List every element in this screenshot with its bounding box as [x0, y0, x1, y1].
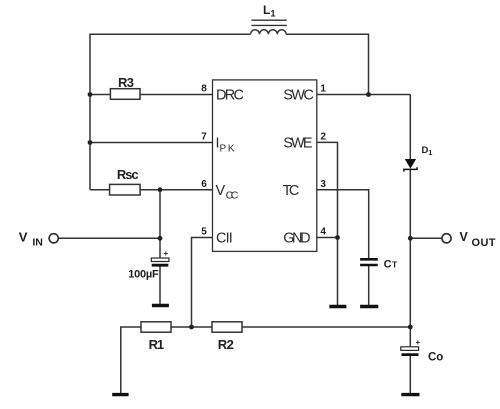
- wire: R1 to R2: [171, 326, 212, 328]
- label L1: [263, 3, 276, 19]
- wire: pin 4 GND to SWE column: [317, 237, 338, 239]
- svg-text:R3: R3: [118, 75, 134, 90]
- svg-text:Rsc: Rsc: [117, 167, 139, 182]
- diode D1: [405, 159, 416, 169]
- junction dot: V_OUT node: [408, 236, 413, 241]
- wire: diode column upper: [409, 95, 411, 160]
- wire: diode to V_OUT node and down to Co: [409, 170, 411, 347]
- wire: rail to Rsc: [90, 189, 110, 191]
- ground: below R1: [112, 393, 128, 396]
- svg-text:SWE: SWE: [283, 136, 313, 152]
- ground: below CT: [360, 305, 378, 308]
- junction dot: rail at R3: [88, 92, 93, 97]
- inductor L1 coil: [251, 30, 287, 34]
- junction dot: divider mid node: [189, 325, 194, 330]
- svg-text:100µF: 100µF: [128, 269, 159, 281]
- junction dot: GND / SWE node: [335, 235, 340, 240]
- svg-text:TC: TC: [283, 183, 300, 199]
- svg-text:R2: R2: [218, 337, 234, 352]
- svg-text:C: C: [384, 258, 392, 270]
- resistor R2 body: [212, 322, 242, 332]
- junction dot: V_IN node: [158, 236, 163, 241]
- capacitor C_T plates: [360, 258, 378, 261]
- svg-text:IN: IN: [32, 237, 42, 249]
- ground: below 100uF: [152, 304, 169, 307]
- svg-text:8: 8: [201, 84, 207, 95]
- wire: Co lower lead: [409, 356, 411, 394]
- terminal: V_OUT circle: [442, 234, 451, 243]
- svg-text:3: 3: [320, 179, 326, 190]
- svg-text:V: V: [460, 230, 469, 244]
- svg-text:1: 1: [271, 9, 276, 19]
- wire: V_OUT stub: [410, 237, 441, 239]
- svg-text:CII: CII: [216, 231, 233, 247]
- junction dot: rail at IPK: [88, 140, 93, 145]
- ground: below Co: [401, 393, 419, 396]
- svg-text:5: 5: [201, 227, 207, 238]
- svg-text:V: V: [19, 230, 28, 245]
- svg-text:T: T: [392, 259, 398, 269]
- resistor R1 body: [141, 322, 171, 332]
- wire: CT lower lead: [368, 266, 370, 306]
- inductor L1 core lines: [251, 19, 286, 21]
- resistor R3 body: [110, 89, 140, 100]
- wire: Rsc to pin 6 VCC: [140, 189, 212, 191]
- terminal: V_IN circle: [49, 234, 58, 243]
- wire: input cap lower lead: [159, 267, 161, 305]
- svg-text:L: L: [263, 3, 270, 17]
- pin name IPK: [216, 136, 235, 155]
- wire: R2 to output column: [242, 326, 410, 328]
- resistor R3 leads: [90, 94, 110, 96]
- svg-text:Co: Co: [428, 352, 443, 364]
- svg-text:PK: PK: [220, 143, 235, 154]
- label V_OUT: [460, 230, 496, 249]
- svg-text:CC: CC: [226, 189, 239, 201]
- capacitor Co (output electrolytic): [401, 338, 421, 355]
- diode D1 schottky cathode bar: [404, 167, 417, 171]
- svg-text:SWC: SWC: [283, 88, 314, 104]
- label V_IN: [19, 230, 43, 249]
- junction dot: SWC / L1 node: [366, 92, 371, 97]
- wire: bottom divider row: [121, 327, 141, 394]
- ground: below SWE/GND column: [329, 305, 346, 308]
- svg-text:7: 7: [201, 132, 207, 143]
- svg-text:1: 1: [320, 84, 326, 95]
- capacitor 100uF (input electrolytic): [151, 249, 169, 265]
- wire: VCC node column down to input cap: [159, 190, 161, 258]
- junction dot: output/Co node: [408, 325, 413, 330]
- svg-text:V: V: [216, 183, 226, 199]
- svg-text:OUT: OUT: [472, 237, 496, 249]
- svg-text:2: 2: [320, 132, 326, 143]
- svg-text:+: +: [416, 338, 421, 347]
- label D1: [422, 145, 433, 157]
- svg-text:1: 1: [428, 148, 432, 157]
- svg-text:6: 6: [201, 179, 207, 190]
- wire: top right segment from L1 to SWC drop: [286, 34, 368, 94]
- wire: pin 3 TC bend down to CT: [317, 190, 369, 258]
- resistor Rsc body: [110, 184, 141, 195]
- svg-text:4: 4: [320, 227, 326, 238]
- svg-text:+: +: [164, 249, 169, 258]
- op-amp U1 (regulator IC box): [213, 80, 317, 252]
- label CT: [384, 258, 398, 270]
- wire: pin 7 IPK from rail: [90, 142, 213, 144]
- wire: left rail vertical: [90, 34, 251, 190]
- wire: V_IN to rail column: [59, 237, 160, 239]
- junction dot: Rsc output node: [158, 187, 163, 192]
- wire: pin 1 SWC to diode column: [317, 94, 411, 96]
- wire: pin 2 SWE bend down: [317, 142, 338, 306]
- wire: pin 8 DRC lead from R3: [140, 94, 213, 96]
- svg-text:GND: GND: [283, 231, 310, 247]
- svg-text:DRC: DRC: [216, 88, 244, 104]
- wire: pin 5 CII bend down to divider: [192, 238, 213, 328]
- svg-text:R1: R1: [149, 337, 165, 352]
- pin name VCC: [216, 183, 239, 201]
